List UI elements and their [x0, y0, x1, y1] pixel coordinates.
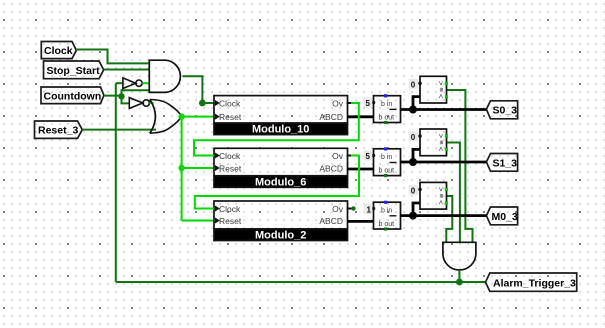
and-gate U1 (4-input): [149, 60, 180, 92]
svg-text:b in: b in: [381, 208, 392, 215]
svg-text:S0_3: S0_3: [493, 105, 518, 117]
svg-text:Stop_Start: Stop_Start: [47, 65, 101, 77]
node S1 junction: [409, 158, 417, 166]
label Stop_Start: [44, 61, 104, 79]
value label 0 on C1: [409, 79, 419, 90]
wire B2 out to label S1_3: [401, 161, 487, 164]
wire Modulo_6 Ov to Modulo_2 clock: [347, 155, 352, 157]
svg-text:M0_3: M0_3: [492, 211, 518, 223]
svg-text:b in: b in: [381, 101, 392, 108]
svg-text:Reset: Reset: [219, 163, 242, 173]
svg-text:ABCD: ABCD: [319, 112, 343, 122]
svg-text:Ov: Ov: [332, 98, 344, 108]
value label 5 on B2: [364, 151, 373, 162]
wire B3 out to label M0_3: [401, 214, 487, 217]
svg-text:Ov: Ov: [332, 204, 344, 214]
buffer B2 b-in/b-out: [372, 147, 401, 177]
svg-text:>: >: [437, 187, 446, 192]
wire Stop_Start to AND input 2: [104, 69, 150, 71]
svg-text:Clock: Clock: [219, 98, 241, 108]
svg-text:b out: b out: [379, 114, 395, 121]
wire Clock to AND input 1: [76, 50, 149, 64]
value label 1 on B3: [364, 204, 373, 215]
svg-text:≡: ≡: [437, 88, 446, 93]
comparator C2: [418, 129, 448, 156]
wire B1 out to label S0_3: [401, 108, 487, 111]
or-gate U2: [150, 100, 182, 134]
svg-text:Reset_3: Reset_3: [38, 125, 78, 137]
svg-text:Modulo_6: Modulo_6: [255, 176, 306, 188]
value label 0 on C2: [409, 132, 419, 143]
svg-text:0: 0: [411, 186, 416, 195]
svg-text:Clock: Clock: [44, 45, 73, 57]
label M0_3: [486, 207, 518, 225]
node Modulo_2 Ov dot: [351, 206, 355, 210]
wire Modulo_2 ABCD to buffer B3: [348, 220, 374, 223]
buffer B3 b-in/b-out: [372, 201, 401, 231]
svg-text:ABCD: ABCD: [319, 216, 343, 226]
wire reset to Modulo_2: [182, 220, 214, 222]
wire C3 output to AND2 input left: [446, 196, 452, 242]
module Modulo_2: [214, 201, 348, 242]
svg-text:ABCD: ABCD: [319, 163, 343, 173]
wire Modulo_10 ABCD to buffer B1: [348, 115, 374, 118]
svg-text:Alarm_Trigger_3: Alarm_Trigger_3: [493, 278, 576, 290]
wire OR output to Modulo_10 reset: [182, 116, 214, 118]
node M0 junction: [409, 212, 417, 220]
wire node A up to AND input 4: [122, 90, 150, 96]
label S1_3: [486, 154, 517, 172]
wire Modulo_2 Ov stub: [347, 208, 352, 210]
wire U3 output to alarm node: [458, 270, 460, 282]
svg-text:≡: ≡: [437, 140, 446, 145]
wire Reset_3 to OR input 2: [82, 129, 156, 131]
svg-text:Reset: Reset: [219, 216, 242, 226]
svg-text:b in: b in: [381, 154, 392, 161]
buffer B1 b-in/b-out: [372, 94, 401, 124]
svg-text:0: 0: [411, 133, 416, 142]
value label 5 on B1: [364, 98, 373, 109]
wire Modulo_6 ABCD to buffer B2: [348, 168, 374, 171]
wire C2 output to AND2 input middle: [447, 143, 460, 243]
node A junction dot: [118, 93, 124, 99]
wire NOT1 input from long net: [116, 82, 123, 84]
svg-text:5: 5: [366, 152, 371, 161]
wire M0 junction to comparator C3: [413, 203, 420, 216]
label Reset_3: [35, 121, 83, 138]
node S0 junction: [409, 106, 417, 114]
svg-text:>: >: [437, 81, 446, 86]
node clock corner dot: [199, 100, 206, 107]
wire NOT1 output to AND input 3: [142, 82, 149, 84]
wire bottom horizontal to alarm junction: [116, 281, 486, 283]
svg-text:5: 5: [366, 99, 371, 108]
wire S0 junction to comparator C1: [413, 97, 420, 110]
inverter NOT1: [123, 78, 142, 89]
comparator C1: [418, 76, 448, 103]
svg-text:Clock: Clock: [219, 204, 241, 214]
svg-text:Modulo_2: Modulo_2: [255, 230, 306, 242]
svg-text:b out: b out: [379, 221, 395, 228]
svg-text:Reset: Reset: [219, 112, 242, 122]
node OR output junction: [178, 113, 184, 119]
and-gate U3 (3-input, pointing down): [443, 242, 476, 270]
wire Countdown to node A: [104, 95, 122, 97]
svg-text:>: >: [437, 134, 446, 139]
svg-text:b out: b out: [379, 167, 395, 174]
label Alarm_Trigger_3: [486, 273, 577, 291]
svg-text:<: <: [437, 94, 446, 99]
module Modulo_10: [214, 96, 348, 136]
svg-text:Ov: Ov: [332, 151, 344, 161]
wire S1 junction to comparator C2: [413, 149, 420, 162]
inverter NOT2: [129, 98, 149, 109]
wire C1 output to AND2 input right: [447, 90, 473, 242]
svg-text:0: 0: [411, 80, 416, 89]
node reset junction: [178, 165, 184, 171]
wire reset to Modulo_6: [182, 167, 214, 169]
svg-text:S1_3: S1_3: [493, 157, 518, 169]
node alarm junction: [456, 279, 463, 286]
label Countdown: [41, 87, 104, 104]
svg-text:Modulo_10: Modulo_10: [252, 124, 309, 136]
wire AND output to Modulo_10 clock: [182, 76, 214, 103]
module Modulo_6: [214, 148, 348, 188]
wire node A down to NOT2 input: [122, 96, 130, 103]
wire NOT2 output to OR input 1: [150, 102, 154, 104]
comparator C3: [418, 182, 448, 209]
svg-text:Countdown: Countdown: [44, 90, 102, 102]
svg-text:Clock: Clock: [219, 151, 241, 161]
value label 0 on C3: [409, 185, 419, 196]
wire Modulo_10 Ov to Modulo_6 clock: [347, 102, 352, 104]
label Clock: [41, 42, 76, 59]
svg-text:1: 1: [367, 206, 372, 215]
label S0_3: [486, 101, 517, 119]
wire reset vertical distribution: [181, 117, 183, 221]
svg-text:<: <: [437, 200, 446, 205]
wire long vertical net left: [115, 83, 117, 282]
svg-text:≡: ≡: [437, 194, 446, 199]
svg-text:<: <: [437, 147, 446, 152]
